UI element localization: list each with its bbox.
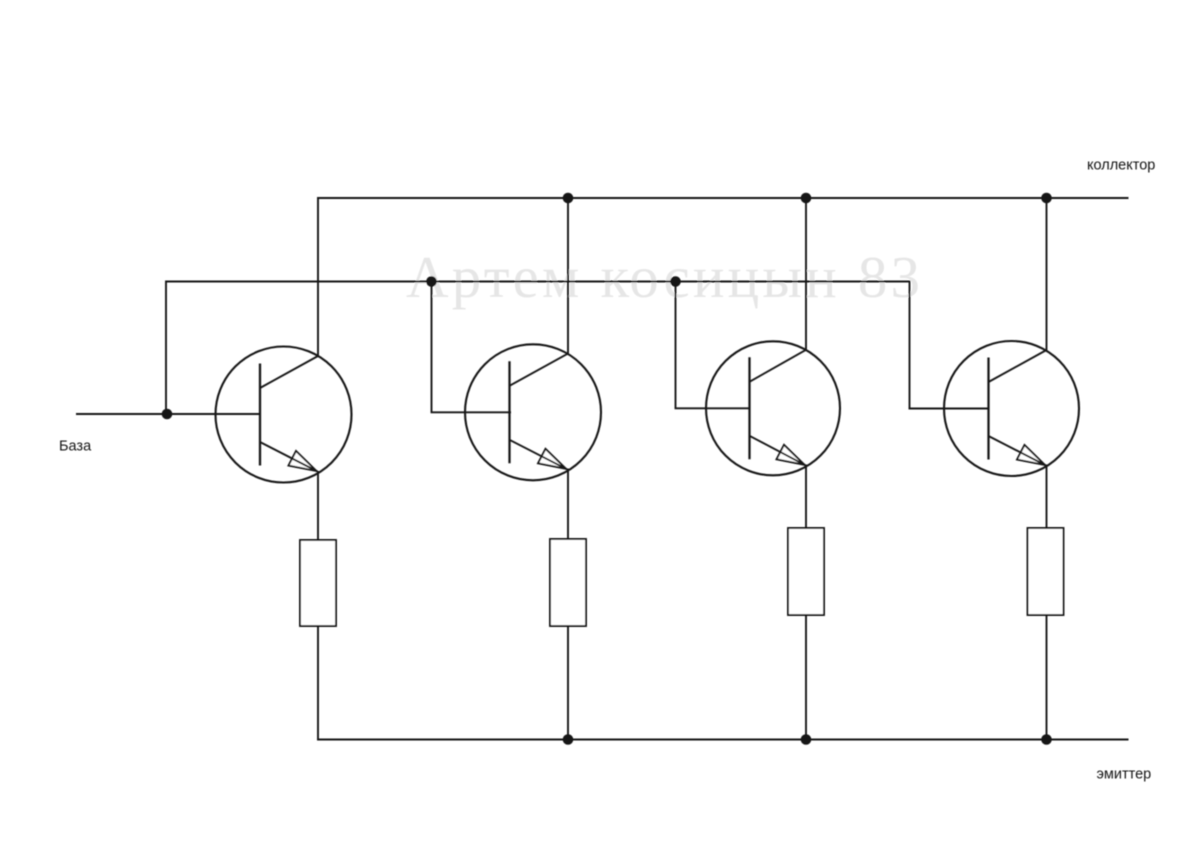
junction dot top Q3 [801, 193, 812, 204]
wire base lead Q3 [675, 407, 749, 409]
wire base drop Q3 [675, 282, 677, 409]
wire emitter Q2 upper [567, 469, 569, 541]
wire emitter Q2 lower [567, 626, 569, 740]
junction dot base bus Q3 [670, 276, 681, 287]
junction dot bottom Q2 [563, 734, 574, 745]
wire base lead Q1 [76, 413, 261, 415]
wire emitter Q1 upper [317, 471, 319, 541]
transistor Q2 [465, 344, 601, 480]
transistor Q3 [706, 341, 840, 475]
junction dot bottom Q4 [1041, 734, 1052, 745]
svg-text:База: База [59, 439, 92, 455]
transistor Q4 [944, 341, 1079, 476]
svg-text:Артем косицын 83: Артем косицын 83 [406, 244, 920, 310]
junction dot base lead Q1 [162, 409, 173, 420]
junction dot base bus Q2 [426, 276, 437, 287]
wire base lead Q2 [431, 411, 511, 413]
wire collector top bus [317, 197, 1128, 199]
wire emitter Q3 lower [805, 615, 807, 740]
wire emitter Q1 lower [317, 626, 319, 740]
wire emitter Q3 upper [805, 465, 807, 530]
wire base bus [166, 281, 910, 283]
resistor R1 [300, 540, 336, 626]
wire base lead Q4 [909, 408, 990, 410]
junction dot bottom Q3 [801, 734, 812, 745]
wire base drop Q2 [431, 282, 433, 413]
junction dot top Q2 [563, 193, 574, 204]
wire collector Q2 [567, 198, 569, 355]
resistor R4 [1028, 528, 1064, 615]
transistor Q1 [216, 347, 352, 483]
svg-text:эмиттер: эмиттер [1097, 767, 1152, 783]
resistor R2 [550, 539, 586, 626]
resistor R3 [788, 528, 824, 615]
wire emitter bottom bus [317, 739, 1128, 741]
wire collector Q4 [1046, 198, 1048, 351]
wire base drop Q4 [909, 281, 911, 409]
junction dot top Q4 [1041, 193, 1052, 204]
wire collector Q1 [317, 197, 319, 357]
wire base bus left drop [165, 281, 167, 414]
wire emitter Q4 upper [1046, 465, 1048, 530]
svg-text:коллектор: коллектор [1087, 158, 1155, 174]
wire collector Q3 [805, 198, 807, 351]
wire emitter Q4 lower [1046, 615, 1048, 740]
